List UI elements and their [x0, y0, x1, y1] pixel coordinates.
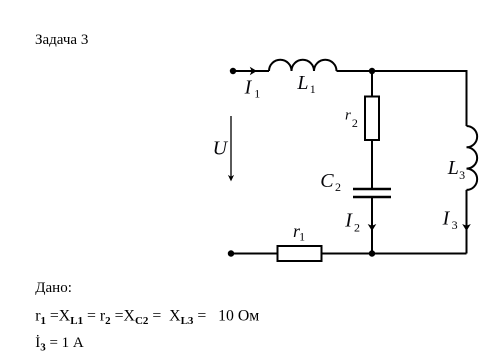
- label L1: [296, 72, 315, 96]
- svg-text:Задача 3: Задача 3: [35, 32, 88, 48]
- svg-text:U: U: [213, 138, 229, 160]
- wire middle branch lower: [371, 197, 373, 254]
- junction node dot bottom: [369, 250, 375, 256]
- svg-text:C: C: [320, 170, 334, 192]
- resistor r2: [365, 97, 379, 141]
- svg-text:I: I: [344, 210, 353, 232]
- svg-text:L: L: [296, 72, 308, 94]
- svg-text:1: 1: [310, 82, 316, 96]
- resistor r1: [278, 246, 322, 261]
- terminal dot top-left: [230, 68, 236, 74]
- svg-text:L: L: [447, 157, 459, 179]
- svg-text:r: r: [345, 107, 351, 123]
- inductor L1: [269, 60, 337, 71]
- capacitor C2 plate top: [353, 188, 391, 190]
- wire middle branch upper: [371, 71, 373, 96]
- svg-text:Дано:: Дано:: [35, 280, 72, 296]
- svg-text:1: 1: [299, 230, 305, 244]
- label r1: [293, 221, 305, 244]
- current arrow I1: [250, 67, 257, 76]
- label L3: [447, 157, 465, 182]
- voltage arrow U line: [230, 116, 232, 179]
- svg-text:1: 1: [254, 87, 260, 101]
- svg-text:2: 2: [335, 180, 341, 194]
- label I1: [244, 77, 261, 101]
- wire bottom-right segment: [322, 253, 467, 255]
- svg-text:I: I: [442, 207, 451, 229]
- wire top-right segment: [337, 70, 467, 72]
- current arrow I2: [368, 224, 377, 231]
- wire bottom-left segment: [231, 253, 277, 255]
- wire middle branch mid: [371, 140, 373, 188]
- svg-text:2: 2: [352, 116, 358, 130]
- wire right branch upper: [466, 70, 468, 126]
- current arrow I3: [462, 224, 471, 231]
- voltage arrow U head: [228, 175, 234, 182]
- svg-text:I: I: [244, 77, 253, 99]
- wire top-left segment: [233, 70, 269, 72]
- label I3: [442, 207, 458, 232]
- wire right branch lower: [466, 190, 468, 254]
- label r2: [345, 107, 358, 130]
- svg-text:2: 2: [354, 221, 360, 235]
- capacitor C2 plate bottom: [353, 196, 391, 198]
- inductor L3: [467, 126, 478, 190]
- svg-text:3: 3: [452, 218, 458, 232]
- label C2: [320, 170, 341, 194]
- junction node dot top: [369, 68, 375, 74]
- svg-text:3: 3: [459, 168, 465, 182]
- terminal dot bottom-left: [228, 250, 234, 256]
- label I2: [344, 210, 360, 235]
